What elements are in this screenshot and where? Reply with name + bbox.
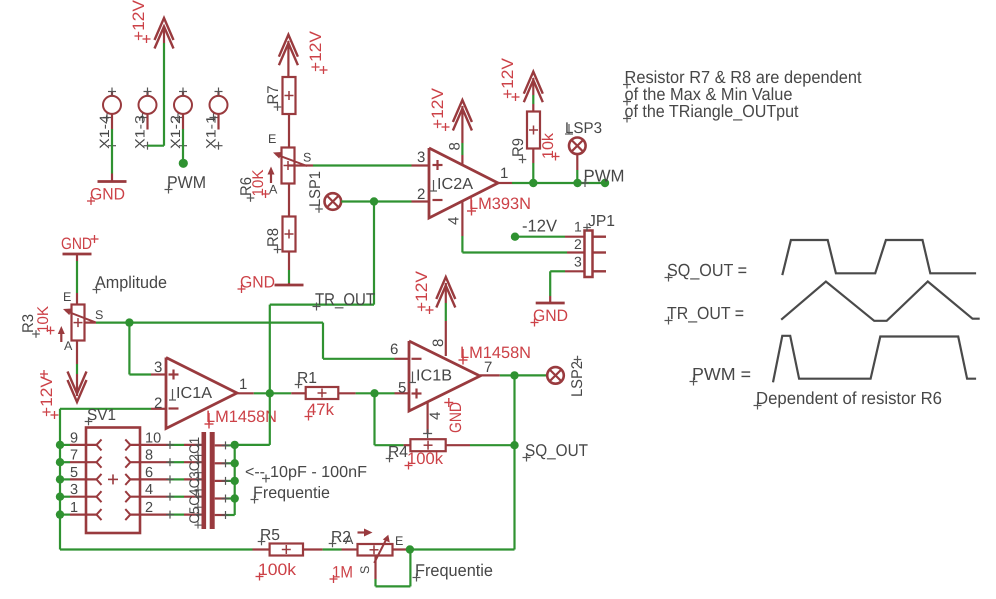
- svg-text:A: A: [269, 183, 278, 197]
- wire IC1A output: [237, 392, 291, 394]
- label X1-2: [168, 115, 183, 149]
- label IC1A: [169, 385, 212, 402]
- svg-text:LSP1: LSP1: [307, 171, 324, 207]
- pin number 9 (SV1): [70, 430, 78, 446]
- value 1M (R2): [330, 564, 354, 584]
- note line 3: [623, 101, 799, 123]
- pin number 10 (SV1): [145, 430, 161, 446]
- svg-text:TR_OUT: TR_OUT: [315, 290, 375, 309]
- label C4: [186, 489, 202, 511]
- pin number 7 (IC1B): [484, 359, 492, 376]
- junction amplitude node: [125, 318, 133, 326]
- wire R6 to R8: [288, 184, 290, 217]
- pin number 1 (JP1): [574, 219, 582, 235]
- svg-text:JP1: JP1: [588, 213, 615, 230]
- svg-text:PWM: PWM: [584, 167, 625, 186]
- svg-text:+12V: +12V: [499, 58, 517, 99]
- +12V label (IC2A pin8): [429, 88, 450, 131]
- wire pin8 IC1B: [445, 283, 447, 356]
- label LSP3: [565, 120, 602, 137]
- wire IC2A output: [498, 182, 533, 184]
- svg-text:4: 4: [446, 217, 463, 225]
- GND label (IC1B pin4): [444, 398, 465, 433]
- svg-text:TR_OUT =: TR_OUT =: [667, 303, 744, 323]
- capacitor plates C1-C5 right: [210, 432, 215, 529]
- pin label E (R3): [63, 290, 71, 304]
- +12V label (R3): [38, 370, 59, 419]
- pin label E (R6): [268, 132, 276, 146]
- wire LSP1 to junction: [341, 200, 374, 202]
- svg-text:X1-1: X1-1: [204, 115, 219, 149]
- svg-text:IC1A: IC1A: [176, 385, 212, 402]
- wire C2 right pin: [215, 459, 235, 467]
- svg-text:5: 5: [398, 380, 406, 397]
- label R6: [238, 177, 255, 202]
- waveform SQ_OUT: [782, 240, 976, 275]
- pin number 3 (IC2A): [417, 149, 425, 166]
- wire SV1 right pin 2 to cap: [130, 511, 202, 519]
- +12V label (IC1B pin8): [413, 271, 434, 314]
- wire IC1A out to cap rail: [235, 393, 270, 445]
- potentiometer R6: [268, 148, 314, 184]
- op-amp IC1B: [409, 341, 480, 411]
- label C1: [186, 437, 202, 459]
- svg-text:GND: GND: [61, 235, 92, 253]
- pin label A (R2): [345, 533, 354, 547]
- pin number 3 (SV1): [70, 482, 78, 498]
- junction cap rail 3: [231, 477, 239, 485]
- wire LSP3 to PWM net: [576, 154, 578, 183]
- wire SV1 left pin 5: [60, 478, 97, 480]
- wire R1 pins: [291, 392, 355, 394]
- svg-text:R8: R8: [265, 228, 282, 247]
- wire junction to IC2A pin2: [374, 200, 429, 202]
- wire amplitude to IC1B pin6: [129, 323, 409, 359]
- capacitor plates C1-C5 left: [202, 432, 207, 529]
- svg-text:A: A: [64, 339, 73, 353]
- value LM1458N (IC1B): [459, 344, 532, 365]
- wire R7 to R6: [288, 114, 290, 148]
- svg-text:10k: 10k: [540, 133, 557, 159]
- wire GND to R3 E: [76, 254, 78, 305]
- svg-text:Amplitude: Amplitude: [95, 273, 167, 292]
- wire +12V to R9: [532, 78, 534, 112]
- svg-text:1: 1: [500, 165, 508, 182]
- value 10K (R3): [35, 305, 55, 334]
- svg-text:C2: C2: [186, 454, 202, 471]
- wire R4 right: [446, 444, 515, 446]
- label X1-4: [97, 114, 112, 149]
- GND label (R8): [238, 274, 276, 294]
- junction IC1B out: [510, 371, 518, 379]
- resistor R1: [306, 387, 339, 399]
- wire C3 right pin: [215, 477, 235, 485]
- svg-text:LM1458N: LM1458N: [460, 344, 531, 362]
- pin number 2 (IC2A): [417, 186, 425, 203]
- svg-text:1: 1: [239, 376, 247, 393]
- label R1: [295, 370, 317, 388]
- label C5: [186, 506, 202, 528]
- label SQ_OUT: [523, 441, 589, 462]
- wire SV1 left pin 9: [60, 444, 97, 446]
- wire SQ_OUT riser: [513, 375, 515, 549]
- label R8: [265, 228, 282, 253]
- wire R8 to GND: [288, 252, 290, 284]
- svg-text:100k: 100k: [407, 450, 444, 468]
- svg-text:2: 2: [574, 236, 582, 252]
- wire X1-4 to GND: [111, 129, 113, 174]
- value 100k (R5): [256, 561, 297, 581]
- svg-text:10pF - 100nF: 10pF - 100nF: [270, 464, 367, 481]
- value 100k (R4): [405, 450, 444, 470]
- pin number 1 (IC1A): [239, 376, 247, 393]
- svg-text:+12V: +12V: [413, 271, 431, 312]
- wire R2 S loop: [376, 550, 411, 587]
- ground symbol (R3 top): [63, 253, 92, 256]
- svg-text:1: 1: [574, 219, 582, 235]
- svg-text:GND: GND: [447, 402, 465, 433]
- wire PWM net: [533, 182, 605, 184]
- wire R2 E to SQ_OUT net: [393, 548, 515, 550]
- svg-text:-12V: -12V: [522, 217, 558, 236]
- label X1-3: [133, 115, 148, 149]
- potentiometer R3: [58, 305, 96, 343]
- wire SV1 right pin 4 to cap: [130, 493, 202, 501]
- wire R3 A to +12V: [76, 341, 78, 397]
- +12V label (R7): [307, 31, 328, 74]
- label PWM (net): [581, 167, 625, 188]
- svg-text:3: 3: [574, 254, 582, 270]
- wire C4 right pin: [215, 495, 235, 503]
- svg-text:of the TRiangle_OUTput: of the TRiangle_OUTput: [625, 101, 799, 121]
- junction SQ_OUT: [510, 441, 518, 449]
- junction R1/IC1B/R4: [370, 389, 378, 397]
- pin number 2 (JP1): [574, 236, 582, 252]
- junction LSP3/PWM: [573, 179, 581, 187]
- node -12V: [511, 233, 585, 241]
- pin number 2 (IC1A): [154, 395, 162, 412]
- label Dependent of resistor R6: [754, 388, 943, 410]
- waveform TR_OUT: [781, 282, 980, 321]
- label X1-1: [204, 115, 219, 149]
- pin label S (R3): [95, 308, 103, 322]
- label R4: [386, 444, 408, 462]
- junction SV1 left rail: [56, 510, 64, 518]
- label C3: [186, 471, 202, 493]
- pin label A (R6): [269, 183, 278, 197]
- svg-text:Frequentie: Frequentie: [253, 484, 330, 502]
- label R3: [20, 314, 40, 338]
- GND label (JP1): [531, 307, 569, 327]
- wire SV1 left pin 1: [60, 513, 97, 515]
- label SQ_OUT =: [665, 260, 748, 282]
- svg-text:SQ_OUT =: SQ_OUT =: [667, 260, 747, 280]
- svg-text:+12V: +12V: [307, 31, 325, 72]
- wire +12V to X1-3: [148, 26, 165, 146]
- junction SP1/TR node: [370, 197, 378, 205]
- svg-text:IC2A: IC2A: [437, 176, 473, 193]
- +12V supply symbol (R7): [279, 35, 298, 65]
- label Frequentie (R2): [413, 561, 494, 582]
- svg-text:S: S: [95, 308, 103, 322]
- pin number 6 (SV1): [145, 465, 153, 481]
- solder pad LSP1: [325, 193, 342, 210]
- svg-text:X1-4: X1-4: [97, 114, 112, 149]
- pin label A (R3): [64, 339, 73, 353]
- junction IC2A out / R9: [529, 179, 537, 187]
- +12V label (R9): [499, 58, 520, 101]
- label R7: [265, 86, 282, 111]
- wire JP1 pin3 to GND: [550, 271, 584, 302]
- label JP1: [583, 213, 615, 231]
- svg-text:X1-3: X1-3: [133, 115, 148, 149]
- junction SV1 left rail: [56, 441, 64, 449]
- GND label (R3 top): [61, 235, 99, 253]
- junction cap rail 4: [231, 494, 239, 502]
- connector SV1: [86, 428, 140, 534]
- +12V supply symbol (R3, down): [68, 372, 87, 403]
- pin label E (R2): [395, 534, 403, 548]
- svg-text:C4: C4: [186, 489, 202, 506]
- svg-text:+12V: +12V: [38, 376, 56, 417]
- svg-text:SQ_OUT: SQ_OUT: [525, 441, 588, 460]
- pin header JP1: [585, 231, 607, 278]
- wire pin4 IC2A to JP1 pin2: [462, 201, 584, 253]
- label TR_OUT =: [665, 303, 745, 325]
- resistor R4: [410, 439, 445, 451]
- wire SV1 right pin 8 to cap: [130, 458, 202, 466]
- svg-text:3: 3: [154, 359, 162, 376]
- pin label S (R2): [358, 566, 372, 574]
- svg-text:IC1B: IC1B: [416, 368, 452, 385]
- wire pin4 IC1B: [423, 402, 432, 438]
- op-amp IC1A: [166, 358, 237, 429]
- note line 1: [623, 67, 862, 89]
- label Amplitude: [93, 273, 168, 294]
- wire SV1 left rail: [59, 409, 61, 550]
- wire TR_OUT riser: [270, 202, 374, 394]
- label R5: [258, 527, 280, 545]
- svg-text:E: E: [395, 534, 403, 548]
- junction PWM stub end: [179, 159, 188, 168]
- svg-text:GND: GND: [90, 186, 125, 204]
- svg-text:PWM: PWM: [167, 173, 206, 192]
- svg-text:R7: R7: [265, 86, 282, 105]
- wire C5 right pin: [215, 511, 235, 519]
- svg-text:Dependent of resistor R6: Dependent of resistor R6: [756, 388, 942, 408]
- pin label S (R6): [303, 151, 311, 165]
- +12V supply symbol (IC2A pin8): [453, 100, 472, 131]
- svg-text:X1-2: X1-2: [168, 115, 183, 149]
- ground symbol (JP1): [536, 302, 565, 305]
- label LSP2: [569, 356, 586, 397]
- label R2: [329, 529, 351, 547]
- svg-text:LM1458N: LM1458N: [206, 408, 277, 426]
- value LM1458N (IC1A): [205, 408, 278, 429]
- wire SV1 right pin 10 to cap: [130, 441, 202, 449]
- wire SV1 rail to IC1A pin2: [60, 408, 166, 410]
- pin number 4 (IC2A): [446, 217, 463, 225]
- svg-text:6: 6: [390, 341, 398, 358]
- label cap range: [245, 464, 367, 483]
- svg-text:C1: C1: [186, 437, 202, 454]
- pin number 4 (SV1): [145, 482, 153, 498]
- ground symbol (X1-4): [98, 174, 127, 182]
- resistor R5: [253, 544, 323, 556]
- wire cap right rail: [234, 445, 236, 515]
- svg-text:10K: 10K: [250, 169, 267, 197]
- label Frequentie (caps): [251, 484, 331, 504]
- wire R5 to R2: [323, 548, 358, 550]
- junction PWM label point: [601, 179, 609, 187]
- connector pad X1-2: [174, 88, 192, 150]
- wire SV1 left pin 3: [60, 496, 97, 498]
- svg-text:A: A: [345, 533, 354, 547]
- svg-text:8: 8: [447, 142, 464, 150]
- svg-text:C5: C5: [186, 506, 202, 523]
- label LSP1: [307, 171, 324, 213]
- note line 2: [623, 84, 793, 106]
- svg-text:+12V: +12V: [130, 0, 148, 41]
- junction SV1 left rail: [56, 493, 64, 501]
- wire IC1B output: [480, 374, 515, 376]
- wire SV1 left pin 7: [60, 461, 97, 463]
- label SV1: [85, 407, 116, 425]
- wire X1-2 PWM stub: [182, 129, 184, 161]
- label R9: [510, 138, 527, 163]
- svg-text:PWM =: PWM =: [692, 364, 751, 384]
- svg-text:C3: C3: [186, 471, 202, 488]
- pin number 3 (JP1): [574, 254, 582, 270]
- op-amp IC2A: [429, 148, 498, 218]
- svg-text:LM393N: LM393N: [469, 195, 531, 213]
- svg-text:10K: 10K: [35, 305, 52, 333]
- pin number 1 (SV1): [70, 500, 78, 516]
- +12V label (X1 feed): [130, 0, 151, 43]
- pin number 5 (IC1B): [398, 380, 406, 397]
- label PWM =: [690, 364, 752, 386]
- wire out to LSP2: [515, 374, 548, 376]
- wire R6 wiper to IC2A pin3: [313, 164, 429, 166]
- label C2: [186, 454, 202, 476]
- pin number 5 (SV1): [70, 465, 78, 481]
- +12V supply symbol (IC1B pin8): [436, 277, 455, 308]
- label IC1B: [409, 368, 452, 385]
- pin number 8 (IC1B): [430, 339, 447, 347]
- label -12V: [522, 217, 558, 236]
- svg-text:R9: R9: [510, 138, 527, 157]
- wire SV1 right pin 6 to cap: [130, 475, 202, 483]
- value 47k (R1): [305, 401, 335, 421]
- potentiometer R2: [358, 535, 393, 579]
- wire R1 to IC1B pin5: [356, 392, 409, 394]
- resistor R9: [527, 112, 540, 149]
- svg-text:4: 4: [427, 412, 444, 420]
- value 10K (R6): [250, 169, 270, 198]
- solder pad LSP3: [569, 138, 586, 155]
- label IC2A: [430, 176, 473, 193]
- wiper set arrow (R2): [358, 529, 373, 537]
- pin number 3 (IC1A): [154, 359, 162, 376]
- svg-text:3: 3: [417, 149, 425, 166]
- value 10k (R9): [540, 133, 560, 161]
- svg-text:2: 2: [154, 395, 162, 412]
- wire C1 right pin: [215, 441, 235, 449]
- pin number 7 (SV1): [70, 448, 78, 464]
- svg-text:Frequentie: Frequentie: [415, 561, 493, 580]
- wire pin8 IC2A: [461, 106, 463, 165]
- label PWM (X1-2): [165, 173, 207, 194]
- connector pad X1-1: [210, 88, 228, 150]
- pin number 1 (IC2A): [500, 165, 508, 182]
- connector pad X1-4: [103, 88, 121, 150]
- svg-text:LSP2: LSP2: [569, 361, 586, 397]
- ground symbol (R8): [275, 283, 304, 285]
- junction R2 E: [406, 545, 414, 553]
- value LM393N: [467, 195, 531, 216]
- svg-text:+12V: +12V: [429, 88, 447, 129]
- svg-text:8: 8: [430, 339, 447, 347]
- wire R9 to PWM net: [532, 149, 534, 184]
- wire R4 loop left: [375, 393, 411, 445]
- svg-text:2: 2: [417, 186, 425, 203]
- pin number 6 (IC1B): [390, 341, 398, 358]
- junction SV1 left rail: [56, 475, 64, 483]
- label TR_OUT: [313, 290, 376, 311]
- svg-text:S: S: [358, 566, 372, 574]
- svg-text:E: E: [268, 132, 276, 146]
- pin number 8 (IC2A): [447, 142, 464, 150]
- pin number 4 (IC1B): [427, 412, 444, 420]
- junction SV1 left rail: [56, 458, 64, 466]
- pin number 8 (SV1): [145, 448, 153, 464]
- solder pad LSP2: [547, 367, 564, 384]
- resistor R7: [283, 77, 296, 114]
- wire amplitude to IC1A pin3: [129, 323, 166, 375]
- svg-text:100k: 100k: [258, 561, 297, 579]
- svg-text:7: 7: [484, 359, 492, 376]
- wire R3 wiper to junction: [96, 322, 129, 324]
- svg-text:E: E: [63, 290, 71, 304]
- waveform PWM: [773, 336, 976, 383]
- resistor R8: [283, 217, 296, 252]
- wire +12V to R7: [287, 41, 289, 77]
- junction IC1A out: [266, 389, 274, 397]
- pin number 2 (SV1): [145, 500, 153, 516]
- connector pad X1-3: [139, 88, 157, 150]
- +12V supply symbol (R9): [524, 72, 543, 103]
- junction cap rail 1: [231, 441, 239, 449]
- svg-text:S: S: [303, 151, 311, 165]
- GND label (X1-4): [87, 186, 125, 206]
- +12V supply symbol (X1 feed): [155, 18, 174, 49]
- wire bottom rail: [60, 548, 253, 550]
- junction cap rail 2: [231, 459, 239, 467]
